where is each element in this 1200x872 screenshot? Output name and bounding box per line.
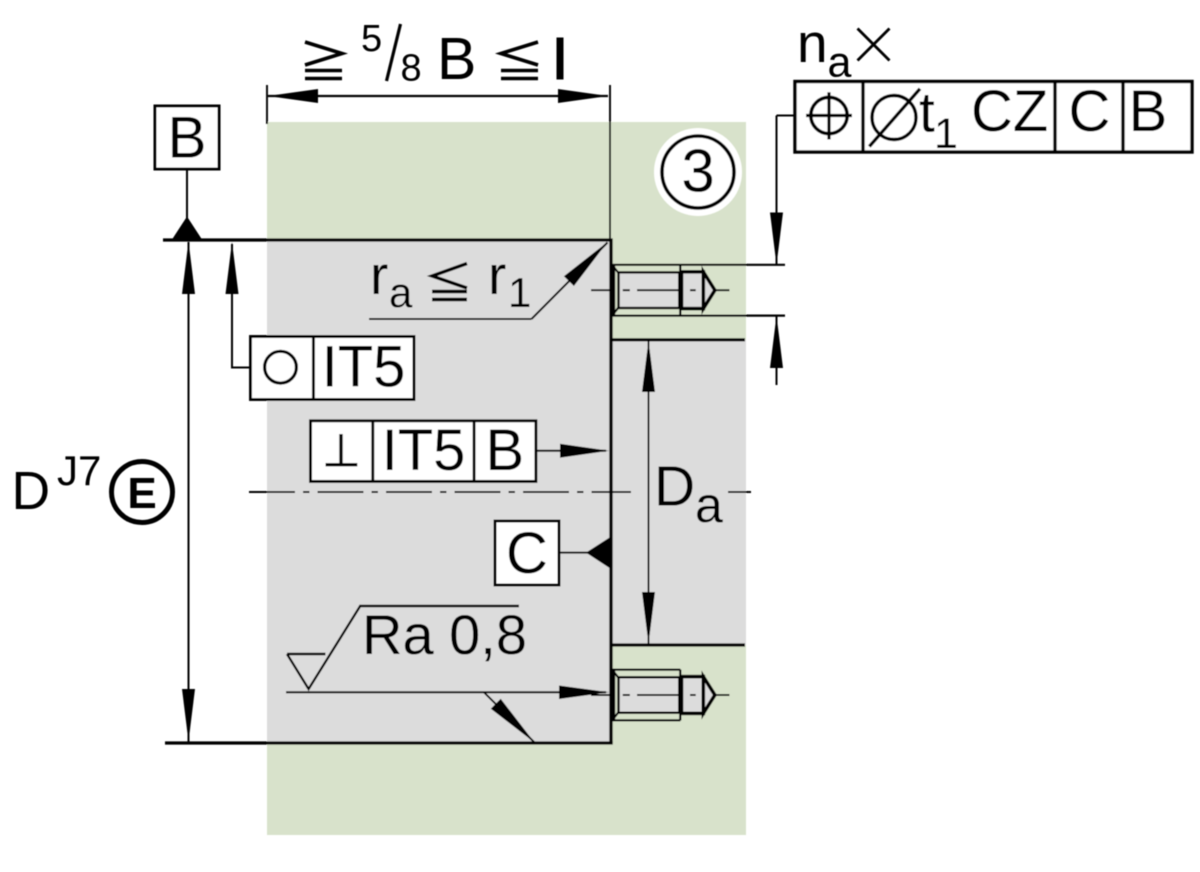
svg-text:IT5: IT5 — [322, 335, 406, 400]
svg-text:B: B — [437, 26, 476, 92]
svg-text:1: 1 — [934, 110, 958, 158]
svg-text:a: a — [695, 477, 723, 533]
svg-text:D: D — [12, 462, 51, 521]
svg-text:t: t — [919, 81, 935, 145]
svg-text:D: D — [654, 455, 695, 519]
svg-text:J7: J7 — [57, 447, 101, 494]
svg-text:1: 1 — [508, 269, 531, 316]
svg-text:5: 5 — [361, 18, 382, 60]
svg-text:CZ: CZ — [971, 79, 1048, 144]
svg-text:8: 8 — [401, 48, 422, 90]
svg-text:C: C — [506, 521, 548, 586]
svg-text:a: a — [389, 269, 413, 316]
svg-text:a: a — [828, 39, 852, 87]
svg-text:B: B — [1129, 79, 1168, 144]
svg-text:C: C — [1069, 79, 1111, 144]
svg-text:r: r — [370, 244, 388, 306]
svg-text:Ra 0,8: Ra 0,8 — [362, 603, 527, 666]
svg-text:E: E — [127, 469, 156, 518]
svg-text:n: n — [797, 12, 828, 74]
svg-text:IT5: IT5 — [382, 418, 466, 483]
svg-text:B: B — [485, 418, 524, 483]
svg-text:B: B — [167, 106, 206, 171]
svg-text:r: r — [488, 244, 506, 306]
svg-text:3: 3 — [681, 138, 714, 205]
